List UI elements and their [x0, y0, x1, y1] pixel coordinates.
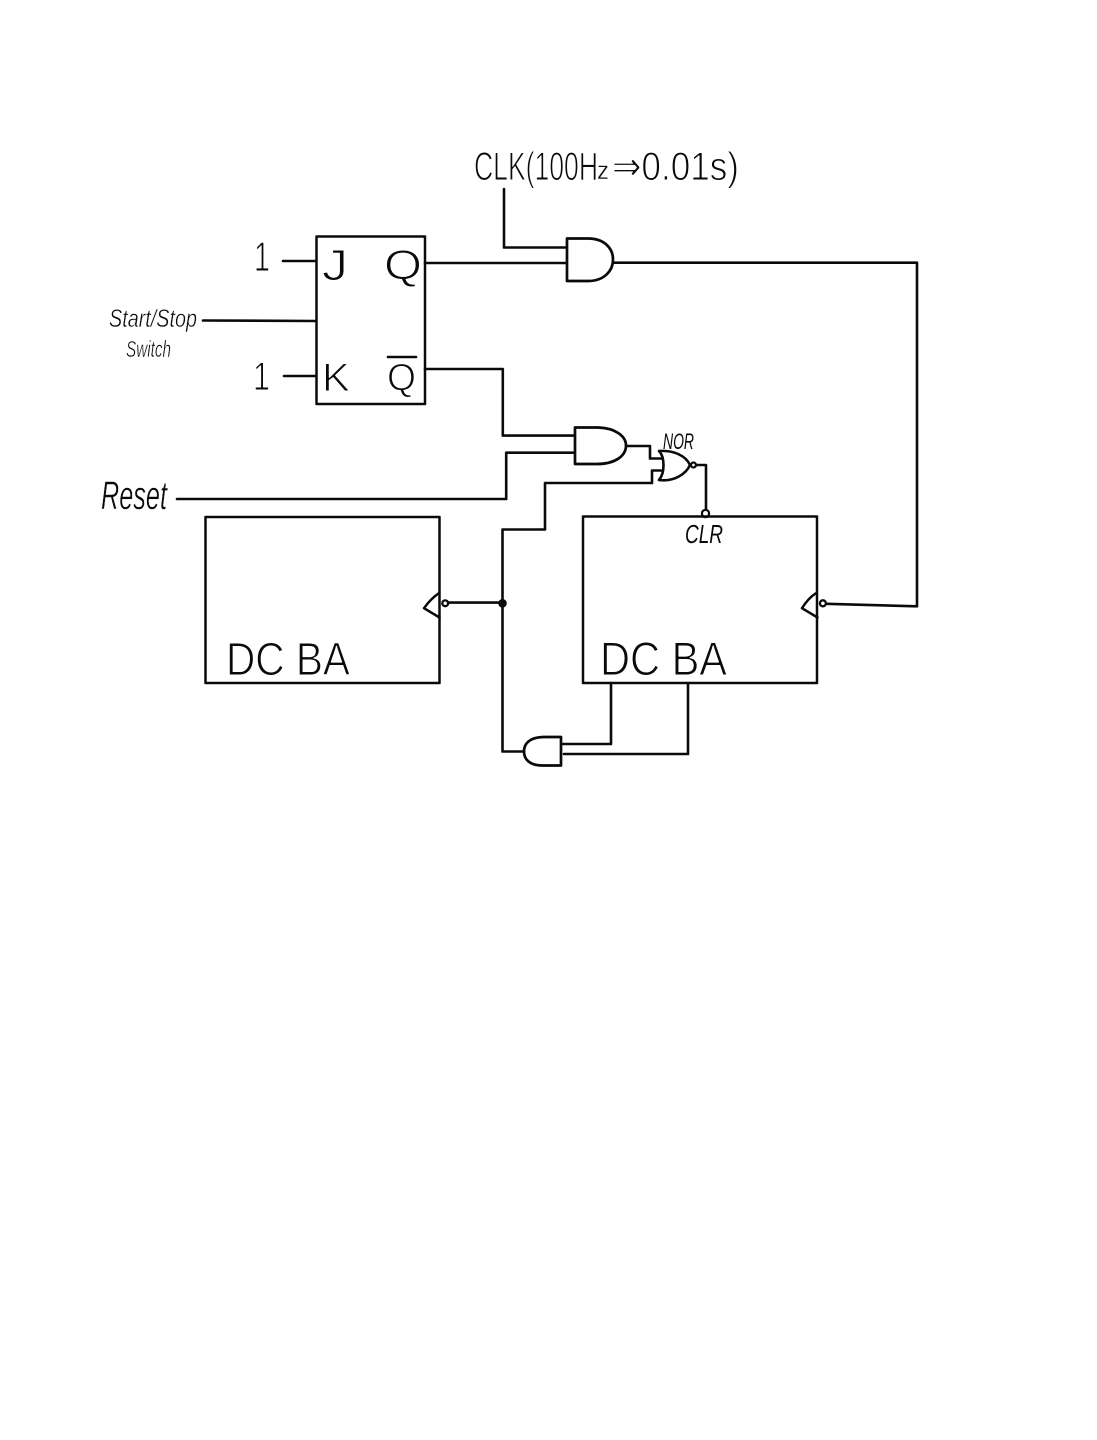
- wire: counter1 clock bubble to junction: [448, 601, 501, 604]
- svg-text:Q: Q: [387, 357, 416, 399]
- wire: U2 output feedback to counter2 clock: [614, 263, 918, 607]
- svg-text:Switch: Switch: [126, 336, 171, 362]
- counter 2 clock wedge: [802, 594, 818, 618]
- wire: Q output to AND U2: [425, 262, 566, 265]
- AND gate U2 (clock gate): [567, 239, 613, 282]
- counter 1 box (left): [206, 517, 440, 683]
- svg-text:⇒0.01s): ⇒0.01s): [612, 145, 739, 189]
- svg-text:DC BA: DC BA: [226, 633, 350, 685]
- svg-text:z: z: [597, 155, 609, 185]
- wire: Q-bar output to AND U3 input: [425, 369, 575, 436]
- svg-text:CLR: CLR: [685, 519, 723, 549]
- JK flip-flop U1 box: [317, 237, 426, 405]
- wire: U3 output to NOR U4 input 1: [626, 446, 661, 459]
- pin label Q-bar: [387, 357, 416, 399]
- wire: 1 to K pin: [284, 375, 316, 378]
- counter 1 clock wedge: [424, 594, 440, 618]
- counter 1 clock bubble: [442, 600, 448, 606]
- AND gate U5 (decode, points left): [524, 737, 561, 766]
- svg-text:Start/Stop: Start/Stop: [109, 305, 197, 333]
- label Start/Stop switch: [109, 305, 197, 362]
- svg-text:K: K: [322, 356, 350, 400]
- counter 2 clock bubble: [820, 600, 826, 606]
- wire: NOR U4 input 2 net down to U5 output: [503, 471, 662, 752]
- wire: Reset to AND U3 input: [177, 453, 575, 499]
- svg-text:1: 1: [254, 233, 270, 280]
- svg-text:1: 1: [253, 355, 270, 399]
- svg-text:CLK(100H: CLK(100H: [474, 145, 598, 189]
- counter 2 box (right): [583, 517, 817, 684]
- svg-text:Q: Q: [384, 241, 422, 288]
- wire: CLK down to AND U2 input: [504, 189, 566, 248]
- svg-text:Reset: Reset: [101, 474, 168, 518]
- svg-text:NOR: NOR: [663, 429, 694, 454]
- wire: 1 to J pin: [283, 260, 316, 263]
- NOR gate U4: [659, 451, 696, 480]
- wire: counter2 B output to AND U5 input: [564, 683, 688, 754]
- svg-text:J: J: [322, 241, 348, 290]
- AND gate U3: [575, 428, 626, 465]
- junction node: [498, 599, 507, 608]
- wire: NOR output to CLR bubble: [696, 465, 706, 509]
- svg-text:DC BA: DC BA: [600, 632, 728, 685]
- CLR bubble on counter2: [702, 510, 709, 517]
- clock label CLK(100Hz=>0.01s): [474, 145, 739, 189]
- wire: counter2 D output to AND U5 input: [562, 683, 611, 744]
- wire: start/stop switch to JK clock input: [203, 319, 316, 322]
